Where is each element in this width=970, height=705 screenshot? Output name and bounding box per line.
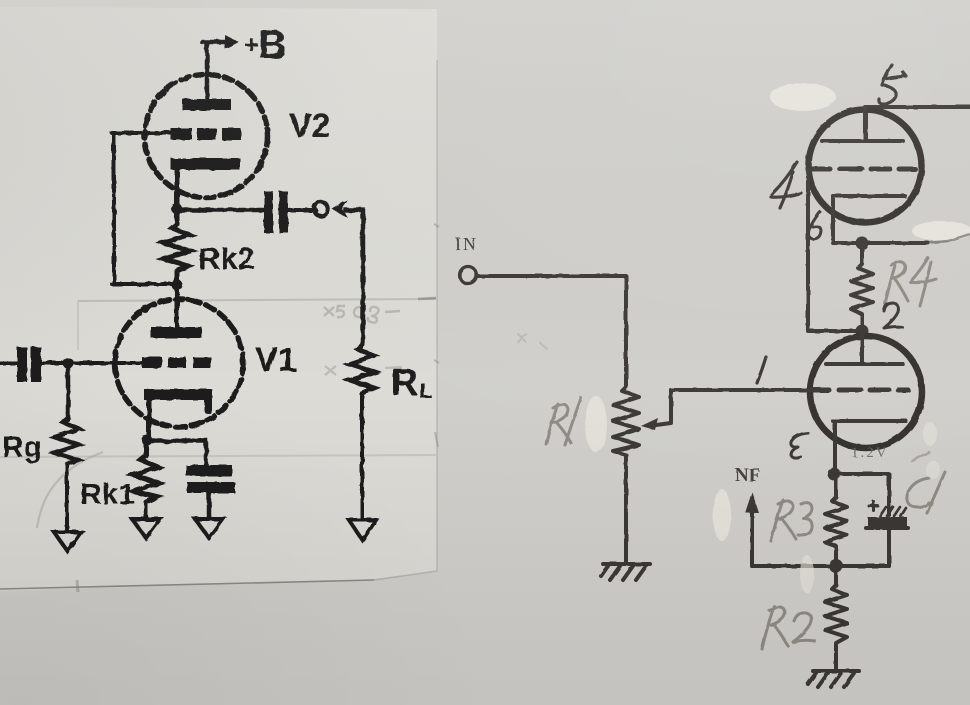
pin label 3 [791,433,808,458]
V1 grid dashes [142,357,211,368]
pin label 5 [879,65,906,104]
wire Rk2 to V1 plate [175,271,180,328]
capacitor C1 lower plate [868,517,907,527]
lower cathode lead [833,421,837,474]
pin label 2 [884,303,902,328]
node Rk2 bottom junction [172,280,183,291]
ground RL [349,520,376,540]
lower plate [826,362,903,366]
node V2 cathode junction [172,204,183,215]
V1 cathode lead [147,397,152,440]
wire cathode to R4 rail [833,241,928,245]
white-out streaks right of 1.2V [923,422,937,446]
V2 cathode bar [171,158,240,170]
faint artifact line y=456 [0,455,436,457]
node cathode/R4 junction pin 6 [856,237,869,250]
resistor Rg [55,363,79,464]
faded wire right of white-out [925,234,970,243]
faint photocopy artifact line y=300 [78,299,436,301]
NF arrow stem [750,510,754,566]
V1 cathode right hook [204,395,212,410]
V1 cathode bar [144,389,212,400]
wire bypass cap to ground [207,493,212,518]
label RL [391,362,432,404]
wire grid pin1 [671,388,812,392]
wire cathode to C1 [835,474,889,515]
upper plate [822,139,903,143]
faint pencil x marks [518,334,547,349]
faint photocopy artifact vertical x=78 [77,301,79,350]
potentiometer wiper arm [656,390,671,425]
tube V1 envelope [115,299,243,427]
pin label 1 [757,357,766,383]
wire bottom rail (NF / R3 / C1) [752,564,889,568]
label R3 (pencil) [771,500,812,541]
node R3/R2/NF junction [829,559,843,573]
label R1 (pencil) [546,398,581,445]
+B arrowhead [225,35,239,49]
upper cathode [833,194,905,198]
ground R1 pot [601,564,650,580]
wire V2 grid to V1 plate (left feedback wire) [112,133,175,284]
paper right edge line [374,60,437,580]
wire jack to RL [345,210,363,344]
white-out blob top [770,83,836,111]
resistor Rk1 [133,440,158,502]
label +B [244,23,287,67]
white-out streak left of R3 [713,489,731,541]
paper bottom edge line [0,580,374,589]
wiper arrowhead [641,418,658,430]
white-out blob pot [585,396,607,452]
pin label 6 [809,212,822,239]
+B supply lead [202,42,227,99]
ground Rk1 [132,519,160,538]
faint pencil dash right [912,452,929,461]
upper grid dashes [812,167,915,172]
wire B+ top rail [866,107,970,141]
wire grid pin4 to lower plate [808,169,858,331]
pin label 4 [771,162,801,208]
V2 grid wire [112,131,173,135]
left photocopy paper sheet [0,7,437,591]
resistor R2 [825,566,847,648]
wire R3 to bottom node [834,548,838,566]
lower cathode [833,419,906,423]
V2 cathode lead [175,166,180,209]
ground R2 [808,671,859,687]
faint artifact text x5C8 [324,306,400,323]
V2 plate bar [182,99,231,110]
capacitor C1 polarity plus [869,502,878,511]
potentiometer R1 element [613,387,639,455]
node V1 cathode junction [142,435,153,446]
paper edge tick marks [434,224,439,447]
input coupling capacitor [0,361,17,365]
wire R2 to ground [834,648,838,670]
lower grid dashes [811,388,908,393]
NF arrowhead [745,492,759,513]
white-out blob right [912,221,970,241]
ground Rg [54,532,81,551]
resistor Rk2 [164,210,190,271]
bypass capacitor [186,465,232,476]
resistor R3 [825,475,847,548]
wire C1 to bottom rail [887,528,891,566]
wire Rg to ground [65,464,69,531]
faint artifact curve bottom-left [37,452,103,528]
tube upper envelope [809,110,922,223]
tube lower envelope [810,336,922,448]
label R2 (pencil) [762,606,815,649]
upper plate lead [863,107,867,141]
label C1 (pencil) [907,472,945,513]
V2 grid dashes [171,128,241,140]
lower plate lead [860,331,864,364]
faint artifact x row2 [325,366,402,375]
white-out streak left of R2 [800,555,814,593]
wire IN to pot [477,276,626,387]
coupling capacitor [264,191,273,233]
tube V2 envelope [145,75,268,198]
wire cathode to bypass cap [147,441,206,466]
faint artifact dark dash end of line y=300 [418,298,436,299]
node input grid junction [63,358,74,369]
wire RL to ground [360,394,364,519]
resistor RL [350,344,374,394]
upper cathode lead [831,196,835,242]
label R4 (pencil) [885,258,936,306]
resistor R4 [851,243,873,316]
output jack [314,202,328,216]
wire pot to ground [624,455,628,563]
wire cathode to coupling cap [177,208,264,213]
node lower cathode junction [828,468,841,481]
capacitor C1 hatched plate [880,507,906,516]
V1 grid wire [41,361,144,365]
output jack arrowhead [332,200,348,218]
wire Rk1 to ground [144,502,148,518]
small smudge on paper edge [77,580,78,592]
V1 plate bar [151,327,202,338]
ground bypass cap [195,519,223,538]
node R4 bottom / lower plate pin 2 [856,325,869,338]
wire cap to jack [288,208,316,212]
wire R4 to lower plate node [860,316,864,331]
